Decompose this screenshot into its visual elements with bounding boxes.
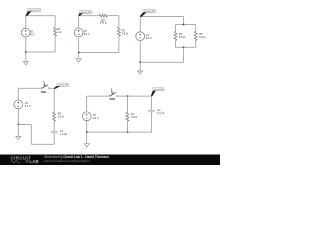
voltage source V3	[136, 32, 145, 41]
wire top c3	[140, 16, 183, 18]
node label box Circuit_1	[28, 8, 42, 12]
svg-text:6.8 Ω: 6.8 Ω	[122, 32, 128, 36]
wire switch to corner c4	[50, 87, 54, 89]
wire top c4 to switch	[18, 87, 41, 89]
ground GND1	[23, 52, 28, 65]
wire R5 top lead	[195, 25, 197, 32]
svg-text:1.0 µF: 1.0 µF	[157, 111, 165, 115]
wire right-top c2	[118, 16, 120, 27]
logo wave	[11, 161, 20, 163]
wire bottom c5	[87, 131, 152, 133]
wire left-top c5	[86, 96, 88, 112]
wire right branch upper c4	[53, 88, 55, 112]
wire top c5 to switch	[87, 95, 110, 97]
wire right-bottom c2	[118, 36, 120, 52]
wire drop to bank c3	[183, 17, 185, 25]
svg-text:240 Ω: 240 Ω	[100, 21, 107, 25]
wire left-bottom c2	[78, 37, 80, 53]
wire C1 bottom lead	[53, 133, 55, 144]
svg-text:9.6 V: 9.6 V	[93, 116, 99, 120]
wire R4 top lead	[175, 25, 177, 32]
wire bottom c3	[140, 61, 183, 63]
junction c1 ground node	[25, 51, 27, 53]
svg-text:SW2: SW2	[110, 97, 116, 101]
svg-text:1.0 µF: 1.0 µF	[60, 132, 68, 136]
wire stair horizontal upper c4	[18, 123, 31, 125]
node label box Circuit_5	[153, 88, 165, 92]
wire R5 bottom lead	[195, 41, 197, 48]
switch SW2	[109, 89, 118, 97]
node label box Circuit_4	[57, 83, 69, 87]
wire stair bottom c4	[31, 143, 54, 145]
svg-text:http://circuitlab.com/c/8xbw4a: http://circuitlab.com/c/8xbw4affcc7	[44, 159, 90, 163]
svg-text:CIRCUIT: CIRCUIT	[10, 155, 31, 160]
wire top c1	[26, 15, 55, 17]
svg-text:9.6 V: 9.6 V	[84, 32, 90, 36]
voltage source V5	[82, 112, 91, 121]
svg-text:6.8 Ω: 6.8 Ω	[199, 35, 205, 39]
wire left-bottom c1	[25, 37, 27, 52]
switch SW1	[41, 81, 50, 89]
resistor R4	[174, 31, 177, 40]
resistor R1	[54, 27, 57, 36]
svg-text:6.8 Ω: 6.8 Ω	[58, 115, 64, 119]
wire bank top rail	[176, 24, 196, 26]
junction c2 ground node	[78, 52, 80, 54]
wire left-top c2	[78, 16, 80, 28]
label pointer c5	[151, 91, 156, 97]
junction R7 bottom	[127, 131, 129, 133]
node label box Circuit_2	[79, 10, 92, 14]
label pointer c3	[140, 12, 147, 17]
logo LAB	[26, 160, 29, 163]
wire bank bottom rail	[176, 46, 196, 48]
voltage source V4	[14, 100, 23, 109]
voltage source V1	[21, 28, 30, 37]
wire bottom c1	[26, 51, 55, 53]
junction bank top	[183, 24, 185, 26]
wire switch to junction c5	[118, 95, 128, 97]
resistor R3	[118, 27, 121, 36]
wire bank drop to bottom	[183, 47, 185, 62]
label pointer c4	[54, 86, 61, 89]
junction bank bottom	[183, 46, 185, 48]
svg-text:9.6 V: 9.6 V	[25, 104, 31, 108]
wire bottom c2	[79, 51, 119, 53]
ground GND5	[84, 132, 89, 147]
wire C2 bottom lead	[151, 112, 153, 132]
label pointer c1	[26, 11, 32, 16]
voltage source V2	[74, 28, 83, 37]
resistor R5	[194, 31, 197, 40]
junction c4 ground node	[18, 124, 20, 126]
svg-text:9.6 V: 9.6 V	[146, 36, 152, 40]
wire junction to corner c5	[128, 95, 152, 97]
wire right-top c1	[54, 16, 56, 27]
wire left-bottom c4	[17, 109, 19, 125]
resistor R7	[126, 112, 129, 121]
svg-text:6.8 Ω: 6.8 Ω	[131, 115, 137, 119]
svg-text:6.8 Ω: 6.8 Ω	[179, 35, 185, 39]
junction c5 ground node	[86, 131, 88, 133]
resistor R2	[99, 14, 107, 17]
wire top-right c2	[107, 15, 119, 17]
junction c3 ground node	[139, 61, 141, 63]
wire R7 bottom lead	[127, 121, 129, 132]
capacitor C2	[148, 110, 155, 111]
capacitor C1	[51, 132, 58, 133]
svg-text:1 Ω: 1 Ω	[57, 30, 61, 34]
wire left-bottom c5	[86, 121, 88, 132]
wire left-top c3	[139, 17, 141, 32]
ground GND4	[16, 124, 21, 139]
ground GND2	[76, 52, 81, 62]
node label box Circuit_3	[143, 9, 156, 13]
svg-text:9 V: 9 V	[30, 32, 34, 36]
junction R7 top	[127, 95, 129, 97]
wire right-top c5	[151, 96, 153, 110]
wire left-top c1	[25, 16, 27, 28]
wire R6 to C1	[53, 121, 55, 131]
label pointer c2	[78, 13, 83, 16]
wire top-left c2	[79, 15, 99, 17]
wire R7 top lead	[127, 96, 129, 112]
ground GND3	[138, 62, 143, 74]
svg-text:SW1: SW1	[41, 90, 47, 94]
wire R4 bottom lead	[175, 41, 177, 48]
resistor R6	[53, 112, 56, 121]
wire stair vertical c4	[30, 124, 32, 144]
wire left-top c4	[17, 88, 19, 100]
svg-text:LAB: LAB	[30, 159, 39, 164]
wire right-bottom c1	[54, 36, 56, 52]
wire left-bottom c3	[139, 41, 141, 63]
